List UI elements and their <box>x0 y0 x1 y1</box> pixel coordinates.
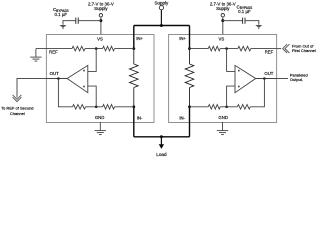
node OUT (right) <box>263 77 266 80</box>
node op-amp noninverting input (right) <box>225 47 228 50</box>
svg-text:Channel: Channel <box>10 111 25 116</box>
wire IN- to load bus (left) <box>133 107 135 137</box>
resistor R4 (left IN- side) <box>103 105 115 110</box>
IC U1 package outline (left channel) <box>46 35 154 123</box>
wire supply to bypass cap (left) <box>78 20 101 22</box>
svg-text:Supply: Supply <box>94 6 108 11</box>
wire supply to VS pin (left) <box>100 17 102 34</box>
wire to op-amp +input (left) <box>88 49 96 72</box>
resistor R1 (left REF side) <box>72 46 85 51</box>
wire bottom row to IN- node (left) <box>115 106 134 108</box>
svg-text:Load: Load <box>156 152 167 157</box>
wire supply center down to bus <box>160 10 162 26</box>
shunt resistor RS2 (right) <box>185 49 194 107</box>
label 2.7-V to 36-V Supply (left) <box>88 1 114 11</box>
wire supply bus (top) <box>134 25 190 27</box>
ground (left GND pin) <box>95 122 106 135</box>
svg-text:REF: REF <box>265 50 274 55</box>
node supply junction (right) <box>221 19 224 22</box>
value label CBYPASS 0.1uF (left) <box>53 7 69 17</box>
label 2.7-V to 36-V Supply (right) <box>210 1 236 11</box>
resistor R8 (right IN- side) <box>208 105 220 110</box>
svg-text:Supply: Supply <box>155 1 170 6</box>
wire bottom row mid (left) <box>86 106 103 108</box>
shunt resistor RS1 (left) <box>130 49 139 107</box>
resistor R6 (right REF side) <box>238 46 251 51</box>
node op-amp inverting input (left) <box>95 106 98 109</box>
ground (right bypass cap) <box>255 25 262 29</box>
svg-text:IN+: IN+ <box>136 36 143 41</box>
svg-text:0.1 µF: 0.1 µF <box>238 9 251 14</box>
svg-text:IN+: IN+ <box>179 36 186 41</box>
svg-text:OUT: OUT <box>264 71 273 76</box>
wire supply to bypass cap (right) <box>223 20 243 22</box>
svg-text:IN-: IN- <box>137 116 143 121</box>
wire IN- to load bus (right) <box>189 107 191 137</box>
resistor R5 (right IN+ side) <box>208 46 220 51</box>
wire cap to ground (left) <box>63 21 76 25</box>
svg-text:0.1 µF: 0.1 µF <box>55 12 68 17</box>
wire bottom row mid (right) <box>220 106 237 108</box>
resistor R7 (right feedback) <box>237 105 250 110</box>
node load junction <box>160 135 163 138</box>
node op-amp inverting input (right) <box>225 106 228 109</box>
label From Out of First Channel <box>292 43 316 53</box>
wire to op-amp -input (left) <box>88 86 96 107</box>
wire op-amp output to OUT pin (right) <box>256 78 277 80</box>
svg-text:Output.: Output. <box>290 77 303 82</box>
op-amp A2 (right, pointing right) <box>235 65 256 92</box>
wire to op-amp -input (right) <box>227 86 235 107</box>
node IN+ (right) <box>188 47 191 50</box>
op-amp A1 (left, pointing left) <box>67 65 88 92</box>
connector arrow from out of first channel <box>283 44 290 53</box>
svg-text:First Channel: First Channel <box>292 48 316 53</box>
wire bus to IN+ (left) <box>133 26 135 49</box>
connector arrow to REF of second channel <box>13 95 22 102</box>
label To REF of Second Channel <box>1 106 33 117</box>
svg-text:To REF of Second: To REF of Second <box>1 106 33 111</box>
load arrow <box>159 137 164 149</box>
value label CBYPASS 0.1uF (right) <box>237 4 253 14</box>
wire feedback OUT to bottom row (left) <box>58 79 72 107</box>
svg-text:VS: VS <box>219 36 225 41</box>
node IN- (right) <box>188 105 191 108</box>
supply terminal (left) <box>99 14 102 17</box>
wire REF row (right) <box>190 48 277 50</box>
supply terminal (right) <box>221 14 224 17</box>
wire REF row (left) <box>36 48 134 50</box>
svg-text:VS: VS <box>97 36 103 41</box>
op-amp A2 input marks <box>238 70 240 87</box>
label Paralleled Output <box>290 72 308 82</box>
wire load bus (bottom) <box>134 136 190 138</box>
wire supply to VS pin (right) <box>222 17 224 34</box>
node IN- (left) <box>132 105 135 108</box>
resistor R2 (left IN+ side) <box>103 46 115 51</box>
wire to op-amp +input (right) <box>227 49 235 72</box>
wire OUT to second channel REF (left external) <box>17 79 46 98</box>
svg-text:Supply: Supply <box>216 6 230 11</box>
ground (left REF pin) <box>30 49 41 62</box>
node OUT (left) <box>57 77 60 80</box>
wire OUT to paralleled output (right external) <box>277 78 288 80</box>
ground (right GND pin) <box>217 122 228 135</box>
IC U2 package outline (right channel) <box>169 35 277 123</box>
node IN+ (left) <box>132 47 135 50</box>
wire cap to ground (right) <box>245 21 259 25</box>
supply terminal (center) <box>159 6 163 10</box>
capacitor C2 bypass (right) <box>243 18 245 24</box>
capacitor C1 bypass (left) <box>76 18 78 24</box>
node supply bus junction <box>160 24 163 27</box>
node op-amp noninverting input (left) <box>95 47 98 50</box>
wire bus to IN+ (right) <box>189 26 191 49</box>
wire op-amp output to OUT pin (left) <box>46 78 67 80</box>
svg-text:GND: GND <box>218 115 228 120</box>
ground (left bypass cap) <box>60 25 67 29</box>
svg-text:IN-: IN- <box>179 116 185 121</box>
svg-text:GND: GND <box>95 115 105 120</box>
svg-text:OUT: OUT <box>50 71 59 76</box>
wire REF to first channel out (right external) <box>277 48 282 50</box>
node supply junction (left) <box>99 19 102 22</box>
resistor R3 (left feedback) <box>73 105 86 110</box>
svg-text:REF: REF <box>49 50 58 55</box>
wire feedback OUT to bottom row (right) <box>250 79 264 107</box>
op-amp A1 input marks <box>83 70 85 87</box>
wire bottom row to IN- node (right) <box>190 106 209 108</box>
